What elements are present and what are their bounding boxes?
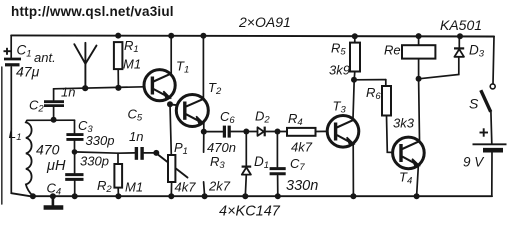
svg-text:D1: D1 bbox=[254, 154, 269, 171]
junction T2 emitter / R3 / C6 node bbox=[201, 129, 207, 135]
junction Re top rail bbox=[416, 33, 422, 39]
svg-text:ant.: ant. bbox=[34, 50, 56, 65]
capacitor C5 bbox=[136, 147, 142, 160]
svg-text:D2: D2 bbox=[255, 109, 270, 126]
wire Re bottom bbox=[418, 59, 420, 79]
transistor T3 bbox=[327, 116, 359, 148]
junction R3 bottom rail bbox=[202, 193, 208, 199]
transistor T2 bbox=[170, 95, 208, 127]
wire switch bottom stub bbox=[490, 112, 493, 144]
wire T2 collector up bbox=[202, 35, 204, 98]
junction C4 bottom rail bbox=[72, 193, 78, 199]
svg-text:Re: Re bbox=[384, 43, 401, 58]
svg-text:C2: C2 bbox=[29, 98, 44, 115]
battery 9V bbox=[473, 128, 507, 150]
svg-text:http://www.qsl.net/va3iul: http://www.qsl.net/va3iul bbox=[11, 4, 174, 19]
svg-text:C5: C5 bbox=[128, 107, 143, 124]
junction ground stub rail bbox=[50, 193, 56, 199]
wire T4 collector up bbox=[418, 79, 421, 140]
svg-text:KA501: KA501 bbox=[440, 17, 482, 33]
junction C7 tap node bbox=[275, 129, 281, 135]
ground bbox=[44, 196, 64, 207]
transistor T1 bbox=[144, 70, 175, 101]
wire D2 to C7 dot bbox=[266, 131, 287, 133]
junction P1 bottom rail bbox=[168, 193, 174, 199]
wire D1 top bbox=[245, 132, 247, 167]
svg-text:1n: 1n bbox=[129, 129, 143, 144]
wire T1 collector up bbox=[170, 35, 172, 73]
svg-text:330n: 330n bbox=[286, 178, 318, 194]
svg-text:R5: R5 bbox=[331, 41, 346, 58]
wire D1 bottom bbox=[245, 175, 246, 196]
wire C5 left bbox=[118, 152, 135, 154]
svg-text:3k3: 3k3 bbox=[393, 116, 415, 131]
wire Re top bbox=[418, 36, 420, 45]
wire D3 top bbox=[458, 36, 460, 48]
wiper diagonal P1 bbox=[158, 154, 188, 177]
svg-text:S: S bbox=[469, 96, 479, 112]
wire C5 right to wiper dot bbox=[144, 152, 156, 154]
wire T2 emitter down to junction bbox=[203, 123, 205, 132]
resistor R2 bbox=[114, 164, 122, 188]
junction antenna node bbox=[82, 85, 88, 91]
wire C6 right bbox=[230, 131, 246, 133]
junction C2 bottom node bbox=[51, 117, 57, 123]
wire R5 bottom to junction bbox=[353, 72, 356, 80]
junction C7 bottom rail bbox=[275, 193, 281, 199]
svg-text:C7: C7 bbox=[290, 156, 305, 173]
svg-text:2×OA91: 2×OA91 bbox=[238, 14, 291, 30]
capacitor C2 bbox=[44, 102, 64, 106]
wire R6 bottom to T4 base bbox=[387, 116, 393, 153]
capacitor C4 bbox=[65, 175, 83, 180]
wire C4 top bbox=[74, 152, 76, 173]
wire battery bottom bbox=[491, 153, 493, 197]
junction R1 top rail bbox=[115, 33, 121, 39]
wire C7 top bbox=[276, 132, 278, 167]
resistor R4 bbox=[287, 128, 316, 136]
svg-text:2k7: 2k7 bbox=[208, 179, 231, 194]
diode D3 bbox=[454, 48, 464, 56]
junction R5 bottom / R6 node bbox=[351, 77, 357, 83]
wire dot to D2 bbox=[246, 131, 257, 133]
wire C3 bottom to junction bbox=[74, 141, 76, 152]
svg-text:R4: R4 bbox=[288, 111, 303, 128]
wire junction to C5/R2 (y~152.5) bbox=[75, 152, 119, 153]
svg-text:T4: T4 bbox=[399, 170, 412, 187]
wire R3 bottom bbox=[204, 182, 205, 196]
capacitor C3 bbox=[66, 135, 83, 140]
svg-text:C6: C6 bbox=[220, 109, 235, 126]
wire junction down to R3 bbox=[203, 132, 205, 153]
junction L1 bottom rail bbox=[30, 193, 36, 199]
potentiometer P1 bbox=[168, 155, 175, 182]
svg-text:C1: C1 bbox=[17, 43, 32, 60]
junction D1 tap node bbox=[243, 129, 249, 135]
wire rail right corner down to switch bbox=[493, 37, 494, 84]
svg-text:R2: R2 bbox=[97, 178, 112, 195]
junction D3 top rail bbox=[457, 33, 463, 39]
svg-text:330p: 330p bbox=[80, 154, 109, 169]
wire R1 bottom bbox=[117, 69, 119, 88]
wire C3 top bbox=[74, 120, 76, 133]
junction T2 collector top rail bbox=[200, 33, 206, 39]
wire R4 right to T3 base bbox=[316, 130, 328, 132]
svg-text:M1: M1 bbox=[123, 57, 141, 72]
wire R2 top bbox=[117, 153, 119, 164]
capacitor C1 electrolytic bbox=[4, 48, 22, 65]
wire T3 emitter down bbox=[352, 145, 354, 197]
wire T4 emitter down bbox=[417, 167, 419, 197]
inductor L1 bbox=[26, 120, 33, 196]
capacitor C7 bbox=[270, 169, 286, 174]
junction T3 emitter rail bbox=[350, 193, 356, 199]
wire R2 bottom bbox=[117, 188, 119, 197]
switch S bbox=[481, 84, 495, 112]
junction Re bottom / D3 / T4 collector node bbox=[416, 76, 422, 82]
wire junction to C6 bbox=[204, 131, 223, 133]
junction C5 wiper node bbox=[153, 150, 159, 156]
svg-text:μH: μH bbox=[46, 158, 66, 174]
transistor T4 bbox=[393, 137, 425, 169]
junction T1 collector top rail bbox=[168, 33, 174, 39]
svg-text:4k7: 4k7 bbox=[175, 180, 197, 195]
svg-text:470n: 470n bbox=[207, 140, 236, 155]
diode D1 bbox=[242, 167, 252, 175]
svg-text:T1: T1 bbox=[176, 59, 189, 76]
top rail bbox=[11, 35, 494, 36]
resistor R6 bbox=[382, 86, 391, 116]
svg-text:1n: 1n bbox=[61, 85, 75, 100]
svg-text:4×KC147: 4×KC147 bbox=[219, 204, 281, 220]
svg-text:R3: R3 bbox=[210, 154, 225, 171]
svg-text:R6: R6 bbox=[366, 85, 381, 102]
bottom rail bbox=[11, 193, 492, 196]
wire junction to R6 top bbox=[354, 79, 386, 81]
wire T3 collector up bbox=[353, 80, 354, 119]
svg-text:47μ: 47μ bbox=[16, 64, 40, 80]
left column wire (C1 branch) bbox=[10, 35, 12, 57]
junction D1 bottom rail bbox=[242, 193, 248, 199]
junction T4 emitter rail bbox=[414, 193, 420, 199]
svg-text:R1: R1 bbox=[124, 38, 139, 55]
resistor R1 bbox=[114, 42, 123, 69]
wire T1 emitter junction down to P1 top bbox=[170, 104, 171, 155]
capacitor C6 bbox=[224, 126, 229, 138]
relay Re bbox=[402, 45, 435, 58]
svg-text:330p: 330p bbox=[86, 133, 115, 148]
svg-text:P1: P1 bbox=[174, 140, 188, 157]
svg-text:470: 470 bbox=[36, 142, 60, 158]
svg-text:T2: T2 bbox=[208, 80, 222, 97]
svg-text:4k7: 4k7 bbox=[291, 140, 313, 155]
junction R2 bottom rail bbox=[115, 193, 121, 199]
antenna bbox=[74, 43, 96, 88]
scan edge artifact left bbox=[1, 67, 3, 204]
wire C2 vertical bbox=[53, 89, 55, 100]
svg-text:L1: L1 bbox=[9, 125, 22, 143]
svg-text:9 V: 9 V bbox=[463, 155, 485, 170]
wire Re junction to D3 bottom bbox=[419, 57, 459, 79]
svg-text:M1: M1 bbox=[125, 180, 143, 195]
resistor R5 bbox=[350, 43, 360, 72]
wire R5 top bbox=[354, 36, 356, 42]
junction T1 emitter / T2 base node bbox=[167, 101, 173, 107]
wire L1-top to C3 (y~120) bbox=[27, 119, 75, 121]
junction R5 top rail bbox=[352, 33, 358, 39]
svg-text:3k9: 3k9 bbox=[329, 63, 350, 78]
junction R1 bottom node bbox=[115, 85, 121, 91]
diode D2 bbox=[258, 127, 265, 137]
svg-text:C4: C4 bbox=[47, 181, 62, 198]
wire C4 bottom bbox=[74, 181, 76, 196]
junction C3-C4 node bbox=[72, 149, 78, 155]
wire C7 bottom bbox=[277, 176, 279, 197]
svg-text:D3: D3 bbox=[469, 43, 485, 60]
wire P1 bottom bbox=[170, 182, 172, 196]
wire base line T1 (y~88) bbox=[54, 87, 144, 89]
svg-text:T3: T3 bbox=[333, 99, 347, 116]
